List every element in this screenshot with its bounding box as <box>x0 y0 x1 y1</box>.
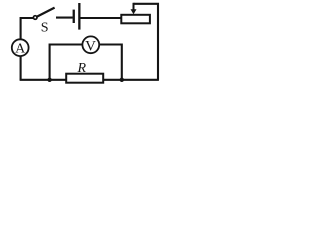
svg-text:S: S <box>41 20 49 35</box>
svg-text:V: V <box>85 38 96 54</box>
svg-text:A: A <box>15 42 26 57</box>
svg-text:R: R <box>77 61 87 76</box>
